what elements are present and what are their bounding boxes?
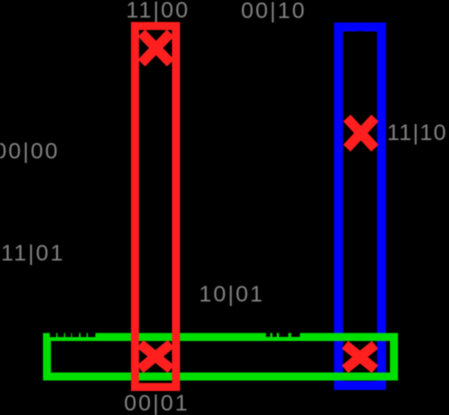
X marker 4 (345, 345, 375, 369)
X marker 1 (142, 33, 171, 63)
occluded label site A (50, 333, 96, 337)
svg-text:10|01: 10|01 (199, 282, 264, 307)
svg-text:00|00: 00|00 (0, 139, 59, 164)
X marker 2 (347, 118, 375, 148)
svg-text:00|10: 00|10 (241, 0, 306, 23)
X marker 3 (140, 344, 171, 369)
green group box (47, 337, 394, 377)
svg-text:00|01: 00|01 (124, 391, 189, 415)
occluded label site B (266, 333, 300, 343)
red group box (135, 26, 176, 387)
occluded label blue top (357, 31, 364, 33)
svg-text:11|00: 11|00 (126, 0, 190, 23)
svg-text:11|01: 11|01 (1, 241, 65, 266)
svg-text:11|10: 11|10 (387, 120, 447, 145)
blue group box (339, 27, 382, 386)
